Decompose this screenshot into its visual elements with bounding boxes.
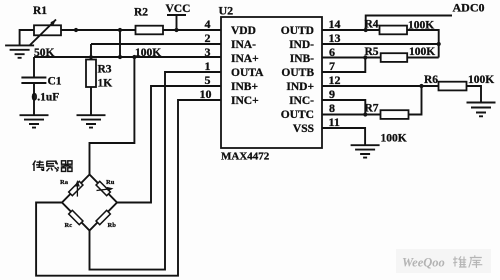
svg-text:6: 6 — [329, 45, 335, 59]
svg-text:10: 10 — [200, 87, 212, 101]
svg-text:9: 9 — [329, 87, 335, 101]
svg-text:ADC0: ADC0 — [453, 1, 485, 15]
svg-text:VDD: VDD — [231, 25, 256, 37]
svg-text:100K: 100K — [381, 133, 407, 145]
svg-text:R3: R3 — [98, 64, 112, 76]
svg-text:C1: C1 — [48, 76, 62, 88]
svg-text:Rc: Rc — [65, 222, 73, 229]
svg-text:R4: R4 — [365, 19, 379, 31]
svg-text:INC+: INC+ — [231, 95, 259, 107]
svg-text:Ra: Ra — [60, 179, 69, 186]
svg-text:8: 8 — [329, 101, 335, 115]
svg-text:OUTB: OUTB — [281, 67, 314, 79]
svg-text:U2: U2 — [219, 4, 234, 18]
svg-text:OUTC: OUTC — [281, 109, 314, 121]
svg-text:50K: 50K — [34, 47, 55, 59]
svg-text:100K: 100K — [408, 20, 434, 32]
svg-text:OUTD: OUTD — [281, 25, 314, 37]
svg-text:INB-: INB- — [290, 53, 314, 65]
svg-text:IND+: IND+ — [286, 81, 314, 93]
svg-text:R6: R6 — [424, 74, 438, 86]
svg-text:IND-: IND- — [289, 39, 314, 51]
svg-text:R2: R2 — [134, 7, 148, 19]
svg-text:INA-: INA- — [231, 39, 256, 51]
svg-text:Ru: Ru — [106, 179, 115, 186]
svg-text:100K: 100K — [135, 47, 161, 59]
svg-text:100K: 100K — [409, 46, 435, 58]
svg-text:WeeQoo: WeeQoo — [402, 256, 445, 270]
svg-text:R1: R1 — [33, 5, 47, 17]
svg-text:100K: 100K — [468, 74, 494, 86]
svg-text:7: 7 — [329, 59, 335, 73]
svg-text:R7: R7 — [365, 103, 379, 115]
svg-text:13: 13 — [329, 31, 341, 45]
svg-text:12: 12 — [329, 73, 341, 87]
svg-text:INA+: INA+ — [231, 53, 259, 65]
svg-text:VCC: VCC — [166, 3, 191, 15]
svg-text:5: 5 — [205, 73, 211, 87]
svg-text:11: 11 — [329, 115, 340, 129]
svg-text:14: 14 — [329, 17, 341, 31]
svg-text:VSS: VSS — [293, 123, 314, 135]
svg-text:MAX4472: MAX4472 — [221, 151, 270, 163]
svg-text:3: 3 — [205, 45, 211, 59]
svg-text:INC-: INC- — [289, 95, 314, 107]
svg-text:INB+: INB+ — [231, 81, 258, 93]
svg-text:1: 1 — [205, 59, 211, 73]
svg-text:Rb: Rb — [108, 222, 117, 229]
svg-text:1K: 1K — [98, 78, 113, 90]
svg-text:0.1uF: 0.1uF — [32, 92, 60, 104]
svg-text:OUTA: OUTA — [231, 67, 264, 79]
svg-text:2: 2 — [205, 31, 211, 45]
svg-text:R5: R5 — [365, 46, 379, 58]
svg-text:4: 4 — [205, 17, 211, 31]
